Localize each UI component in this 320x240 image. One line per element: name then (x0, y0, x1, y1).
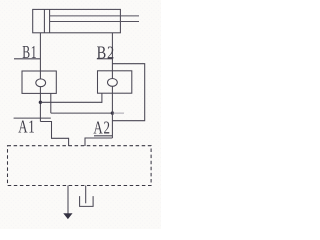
valve V2 pilot line (101, 93, 103, 103)
label A2 (93, 119, 110, 139)
node B1 terminal stroke (14, 58, 40, 60)
pilot rail 1 (A1 junction to valve V2 pilot) (40, 101, 102, 103)
svg-text:B2: B2 (97, 42, 115, 63)
wire A2 (valve V2 down) (111, 93, 113, 138)
wire P (manifold to pressure source) (67, 186, 69, 215)
wire B1 port (cylinder through valve V1) (39, 33, 41, 94)
wire T (manifold to tank) (85, 186, 87, 204)
svg-text:A1: A1 (18, 117, 35, 137)
junction dot on A1 wire (39, 101, 42, 104)
tank symbol (80, 196, 94, 206)
hydraulic power unit (dashed enclosure) (8, 146, 152, 186)
piston line 1 (43, 9, 45, 32)
svg-text:A2: A2 (93, 119, 110, 139)
label B1 (22, 43, 37, 63)
piston line 2 (49, 9, 51, 32)
pressure source triangle (64, 214, 72, 219)
pilot rail 2 faint tail (112, 112, 124, 114)
valve V1 ball (36, 79, 46, 87)
label B2 (97, 42, 115, 63)
piston rod upper line (50, 15, 139, 17)
wire B2 port (cylinder through valve V2) (111, 33, 113, 93)
node A1 terminal stroke (14, 117, 51, 119)
svg-text:B1: B1 (22, 43, 37, 63)
valve V2 ball (108, 79, 118, 87)
valve V2 body (98, 71, 132, 93)
wire A2 jog into manifold (85, 138, 112, 146)
piston rod lower line (50, 21, 139, 23)
label A1 (18, 117, 35, 137)
node B2 terminal stroke (97, 58, 113, 60)
valve V1 body (22, 71, 56, 93)
node A2 terminal stroke (94, 135, 112, 137)
pilot rail 2 (valve V1 pilot to A2 junction) (51, 112, 113, 114)
valve V1 pilot line (50, 93, 52, 113)
wire A1 (valve V1 down) (39, 93, 41, 121)
wire A1 jog into manifold (40, 122, 68, 147)
junction dot on A2 wire (111, 111, 114, 114)
cylinder body (33, 9, 121, 32)
wire B2 bypass branch (right side) (112, 64, 144, 121)
